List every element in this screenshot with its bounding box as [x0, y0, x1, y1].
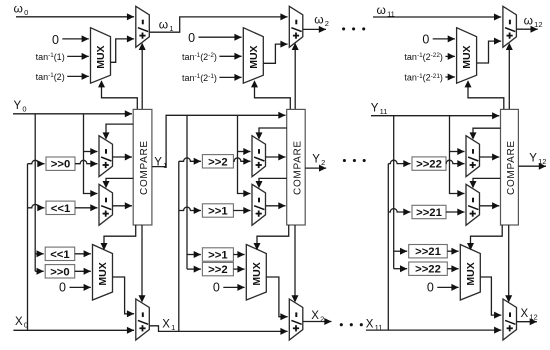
wire compare d1 to adder A1a select [139, 43, 146, 110]
label Y_11 [371, 102, 388, 116]
mux M3a (angle select, stage 3) [457, 28, 477, 83]
node ellipsis bottom [340, 323, 363, 326]
wire Y feed rail down (stage 2) [186, 115, 188, 269]
wire X feed to >>1 input [179, 207, 201, 214]
svg-text:<<1: <<1 [50, 249, 69, 261]
wire Y bus minus-feed drop (stage 3) [450, 116, 465, 197]
wire compare to mux M1b select [101, 225, 136, 250]
label omega_12 [524, 13, 543, 29]
svg-text:MUX: MUX [251, 262, 263, 285]
wire X feed to >>2 input [179, 158, 201, 165]
svg-text:>>21: >>21 [415, 246, 441, 258]
wire X feed to >>0 input [28, 160, 45, 167]
wire Y_11 input bus [371, 112, 499, 119]
shifter >>2 (stage 2 Y path) [202, 155, 233, 169]
wire Y_0 input bus [13, 110, 132, 117]
wire Y feed rail down (stage 3) [393, 116, 395, 269]
wire mux M2a output to adder A2a plus input [263, 41, 287, 64]
label 0 constant (stage 2 X mux) [213, 280, 245, 294]
wire adder A3y2 output to compare [480, 202, 500, 209]
svg-text:<<1: <<1 [51, 203, 70, 215]
svg-text:COMPARE: COMPARE [139, 140, 150, 195]
wire Y_2 output [305, 165, 326, 172]
wire compare to adder A2y1 select [256, 128, 287, 140]
wire Y feed to >>2 input [187, 266, 201, 273]
shifter >>0 (stage 1 X path) [45, 265, 74, 279]
wire &gt;&gt;21 output to adder A3y2 plus [446, 209, 465, 216]
wire >>0 output to adder A1y1 plus [75, 160, 98, 167]
adder A2y1 (stage 2 upper Y) [252, 136, 266, 177]
wire omega_2 output [303, 26, 326, 33]
label tan-1 first (stage 2) [182, 52, 242, 62]
label omega_0 [14, 1, 29, 16]
wire compare to mux M2b select [254, 225, 289, 250]
compare block U3 (stage 3) [501, 109, 519, 225]
wire <<1 output to mux M1b [75, 250, 91, 257]
wire Y feed to &gt;&gt;22 input [394, 265, 408, 272]
wire Y feed to >>1 input [187, 251, 201, 258]
wire X_1 (adder A1x out to adder A2x) [149, 326, 287, 335]
wire compare to adder A1y2 select [103, 178, 134, 188]
shifter >>0 (stage 1 Y path) [46, 157, 75, 171]
svg-text:>>1: >>1 [208, 206, 227, 218]
shifter <<1 (stage 1 X path) [45, 247, 74, 261]
adder A3y2 (stage 3 lower Y) [466, 184, 480, 225]
adder A3x (X path, stage 3) [503, 299, 517, 340]
svg-text:>>1: >>1 [208, 250, 227, 262]
shifter >>1 (stage 2 Y path) [202, 204, 233, 218]
wire omega_11 input bus [373, 14, 501, 21]
wire Y bus minus-feed drop (stage 2) [238, 115, 251, 197]
label omega_11 [377, 3, 395, 19]
wire compare to adder A2x select [292, 225, 299, 303]
node ellipsis middle [343, 159, 366, 162]
wire omega_12 output [516, 26, 537, 33]
adder A2x (X path, stage 2) [289, 299, 303, 340]
wire X_11 input bus [366, 327, 501, 334]
wire Y_12 output [518, 163, 546, 170]
mux M3b (X path, stage 3) [460, 245, 480, 301]
shifter >>2 (stage 2 X path) [202, 262, 233, 276]
svg-text:>>2: >>2 [208, 264, 227, 276]
wire compare to adder A1y1 select [103, 124, 134, 140]
wire >>2 output to adder A2y1 plus [233, 158, 250, 165]
label Y_12 [529, 152, 546, 166]
shifter &gt;&gt;22 (stage 3 Y path) [412, 157, 446, 171]
wire Y feed to <<1 input [35, 250, 44, 257]
label 0 constant (stage 3 X mux) [427, 280, 459, 294]
wire &gt;&gt;22 output to adder A3y1 plus [446, 160, 465, 167]
label tan-1 first (stage 3) [404, 52, 454, 62]
svg-text:0: 0 [59, 280, 66, 294]
wire &gt;&gt;21 output to mux M3b [447, 248, 458, 255]
svg-text:0: 0 [422, 33, 429, 47]
mux M2b (X path, stage 2) [246, 245, 266, 301]
wire adder A1y1 output to compare [113, 154, 133, 161]
svg-text:>>0: >>0 [50, 266, 69, 278]
wire compare d2 to adder A2a select [292, 43, 299, 110]
wire compare to adder A1x select [139, 225, 146, 303]
svg-text:0: 0 [188, 31, 195, 45]
label 0 constant (stage 1 X mux) [59, 280, 91, 294]
wire adder A3y1 output to compare [480, 154, 500, 161]
svg-text:0: 0 [427, 280, 434, 294]
svg-text:>>21: >>21 [416, 207, 442, 219]
shifter <<1 (stage 1 Y path) [46, 201, 75, 215]
wire compare to adder A3x select [505, 225, 512, 303]
adder A3y1 (stage 3 upper Y) [466, 136, 480, 177]
adder A1y1 (stage 1 upper Y) [99, 136, 113, 177]
wire compare to adder A3y1 select [470, 128, 501, 139]
wire X_12 output [517, 318, 537, 325]
mux M2a (angle select, stage 2) [243, 28, 263, 83]
label 0 constant (stage 3 angle mux) [422, 33, 455, 47]
wire adder A1y2 output to compare [113, 202, 133, 209]
svg-text:MUX: MUX [461, 45, 473, 68]
wire X feed rail up (stage 2) [178, 161, 180, 331]
svg-text:>>0: >>0 [51, 159, 70, 171]
wire X feed rail up (stage 3) [387, 164, 389, 331]
label tan-1 second (stage 3) [404, 73, 454, 83]
wire mux M1a output to adder A1a plus input [111, 35, 135, 62]
svg-text:>>2: >>2 [208, 156, 227, 168]
svg-text:>>22: >>22 [416, 159, 442, 171]
wire omega_1 (adder A1a out to adder A2a) [149, 13, 287, 32]
label omega_1 [159, 18, 174, 33]
wire >>1 output to mux M2b [233, 251, 244, 258]
wire omega_0 input bus [16, 13, 134, 20]
wire mux M3b output to adder A3x minus [480, 277, 501, 319]
label 0 constant (stage 1 angle mux) [52, 33, 89, 47]
wire Y feed to &gt;&gt;21 input [394, 248, 408, 255]
label Y_1 [154, 156, 167, 170]
label X_11 [366, 318, 383, 332]
wire compare to adder A3y2 select [470, 178, 501, 188]
wire compare d1 to mux M1a select [98, 80, 137, 109]
wire >>0 output to mux M1b [75, 268, 91, 275]
shifter >>1 (stage 2 X path) [202, 248, 233, 262]
svg-text:COMPARE: COMPARE [292, 140, 303, 195]
label omega_2 [314, 13, 329, 29]
wire X_0 input bus [13, 327, 134, 334]
wire adder A2y1 output to compare [266, 154, 286, 161]
wire mux M1b output to adder A1x minus [113, 277, 135, 317]
svg-text:>>22: >>22 [415, 264, 441, 276]
adder A1x (X path, stage 1) [136, 299, 150, 340]
svg-text:MUX: MUX [95, 45, 107, 68]
wire X feed rail up (stage 1) [27, 164, 29, 331]
wire <<1 output to adder A1y2 plus [75, 204, 98, 211]
label Y_0 [14, 100, 27, 114]
svg-text:0: 0 [213, 280, 220, 294]
label X_1 [162, 318, 175, 332]
node ellipsis top [342, 27, 365, 30]
svg-text:MUX: MUX [97, 262, 109, 285]
svg-text:0: 0 [52, 33, 59, 47]
wire Y feed rail down (stage 1) [34, 114, 36, 271]
wire adder A2y2 output to compare [266, 202, 286, 209]
shifter &gt;&gt;21 (stage 3 X path) [409, 245, 448, 259]
label X_2 [311, 310, 324, 324]
label tan-1 second (stage 2) [182, 73, 242, 83]
svg-text:MUX: MUX [465, 262, 477, 285]
wire compare to mux M3b select [467, 225, 502, 250]
mux M1a (angle select, stage 1) [91, 28, 111, 83]
label X_12 [521, 308, 538, 322]
label Y_2 [312, 153, 325, 167]
adder A1y2 (stage 1 lower Y) [99, 184, 113, 225]
wire mux M2b output to adder A2x minus [266, 277, 287, 320]
svg-text:MUX: MUX [248, 45, 260, 68]
wire compare d2 to mux M2a select [251, 80, 290, 109]
wire Y_1 (compare U1 out, riser to stage 2 bus) [152, 112, 286, 167]
wire Y feed to >>0 input [35, 268, 44, 275]
label tan-1 first (stage 1) [36, 52, 89, 62]
wire compare to adder A2y2 select [256, 178, 287, 188]
adder A2y2 (stage 2 lower Y) [252, 184, 266, 225]
shifter &gt;&gt;22 (stage 3 X path) [409, 262, 448, 276]
adder A1a (omega path, stage 1) [136, 6, 150, 47]
wire mux M3a output to adder A3a plus input [477, 38, 502, 63]
wire >>2 output to mux M2b [233, 266, 244, 273]
wire X feed to <<1 input [28, 204, 45, 211]
adder A2a (omega path, stage 2) [289, 6, 303, 47]
wire X feed to &gt;&gt;22 input [388, 160, 410, 167]
label 0 constant (stage 2 angle mux) [188, 31, 241, 45]
shifter &gt;&gt;21 (stage 3 Y path) [412, 205, 446, 219]
compare block U2 (stage 2) [287, 109, 306, 225]
label X_0 [15, 316, 28, 330]
compare block U1 (stage 1) [133, 109, 152, 225]
wire minus-feed branch to adder A1y1 [84, 148, 98, 155]
wire compare d3 to mux M3a select [465, 80, 504, 109]
wire minus-feed branch to adder A3y1 [450, 148, 465, 155]
wire &gt;&gt;22 output to mux M3b [447, 265, 458, 272]
wire X_2 output [303, 318, 332, 325]
label tan-1 second (stage 1) [36, 72, 89, 82]
wire >>1 output to adder A2y2 plus [233, 207, 250, 214]
wire minus-feed branch to adder A2y1 [238, 148, 251, 155]
svg-text:COMPARE: COMPARE [506, 140, 517, 195]
wire compare d3 to adder A3a select [506, 43, 513, 110]
adder A3a (omega path, stage 3) [503, 6, 517, 47]
wire Y bus minus-feed drop (stage 1) [84, 114, 98, 197]
mux M1b (X path, stage 1) [93, 245, 113, 301]
wire X feed to &gt;&gt;21 input [388, 209, 410, 216]
